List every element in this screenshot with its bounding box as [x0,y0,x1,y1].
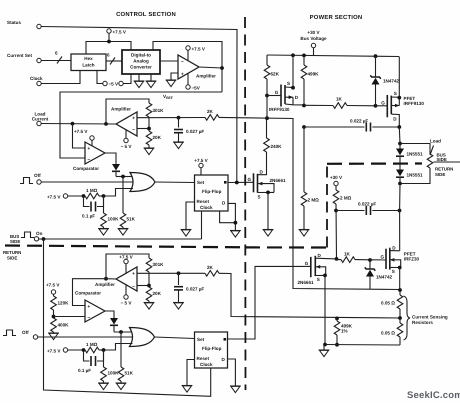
svg-text:+7.5 V: +7.5 V [192,47,206,52]
svg-text:G: G [381,100,385,105]
svg-text:IRFZ30: IRFZ30 [404,257,420,262]
svg-text:100K: 100K [108,371,120,376]
svg-text:Converter: Converter [130,65,152,70]
wire Current Set to Hex Latch with bus slash 6 [41,60,71,62]
svg-text:S: S [287,81,290,86]
wire 62K node down to 2K line [266,96,268,119]
svg-text:Comparator: Comparator [73,166,99,171]
ground below 20K [144,148,155,155]
wire VREF line down to comparator U5 minus input [60,92,222,158]
resistor R 2M (left) [303,127,305,192]
latch U1 Hex Latch [71,54,106,71]
svg-text:2K: 2K [207,265,214,270]
svg-text:S: S [258,195,261,200]
svg-text:100K: 100K [108,217,120,222]
svg-text:301K: 301K [153,262,165,267]
resistor R 51K (lower) [120,332,122,367]
resistor R 1M (lower) [85,347,99,353]
svg-text:6: 6 [55,51,58,56]
wire U6 D output to ground [228,203,235,230]
svg-text:+7.5 V: +7.5 V [113,30,127,35]
svg-text:Set: Set [197,180,205,185]
ground below DAC right [150,74,152,81]
wire G2 bottom input jog [104,344,133,351]
node junction [107,40,111,44]
zener diode CR6 1N4742 (lower) [369,260,371,269]
svg-text:20K: 20K [153,291,162,296]
svg-text:SIDE: SIDE [435,172,445,177]
wire bottom rail [325,344,400,347]
resistor R 0.05 ohm (upper sense) [399,290,401,295]
svg-text:120K: 120K [58,301,70,306]
svg-text:0.1 µF: 0.1 µF [78,368,91,373]
svg-text:499K: 499K [308,72,320,77]
wire U7 minus input junction [137,285,149,287]
wire output column to PFET Q4 [399,184,401,251]
ground at U3 plus input [166,80,177,87]
svg-text:1N5551: 1N5551 [407,173,424,178]
wire U4 plus input line to 2K and power section [137,117,205,119]
svg-text:−: − [87,157,90,163]
svg-text:1 MΩ: 1 MΩ [86,342,98,347]
ground at bottom rail [323,345,325,351]
ground below 400K [48,333,59,340]
svg-text:0.1 µF: 0.1 µF [82,214,95,219]
wire Hex Latch to DAC with bus slash 6 [106,60,122,62]
wire 1K to PFET gate [376,105,388,107]
svg-text:G: G [381,255,385,260]
capacitor C 0.1uF (upper) [84,196,90,207]
wire U3 plus input to ground [171,73,178,80]
svg-text:400K: 400K [58,323,70,328]
svg-text:S: S [317,277,320,282]
svg-text:Clock: Clock [200,362,213,367]
op-amp U3 Amplifier (DAC buffer) [178,55,199,79]
svg-text:Current: Current [32,117,49,122]
svg-text:Comparator: Comparator [75,290,101,295]
op-amp U7 Amplifier (lower, points left) [116,267,137,291]
wire U4 minus input to junction [137,128,149,130]
wire U9 Reset to ground [187,360,195,386]
svg-text:Current Set: Current Set [7,53,32,58]
svg-text:2N6661: 2N6661 [298,280,315,285]
wire divider midpoint to U8 minus input [54,316,86,318]
transistor Q3 PFET IRFF9130 (upper right) [386,95,388,117]
svg-text:+30 V: +30 V [307,30,320,35]
diode CR5 1N5551 [396,170,404,177]
svg-text:IRFF9130: IRFF9130 [269,107,290,112]
wire 2K to current sense midpoint [219,273,400,318]
svg-text:+: + [181,72,184,78]
svg-text:1N4742: 1N4742 [376,275,393,280]
wire dashed bus/return separator (left) [5,246,245,248]
svg-text:1K: 1K [344,252,351,257]
resistor R 20K (lower) [148,286,150,288]
node junction U3 output [220,66,224,70]
resistor R 400K [51,318,57,332]
capacitor C 0.027uF (upper) [178,118,180,128]
resistor R 301K (lower) [146,258,152,272]
svg-text:−: − [132,284,135,290]
svg-text:20K: 20K [153,135,162,140]
svg-text:+7.5 V: +7.5 V [194,158,208,163]
node -5V terminal below U4 [124,138,128,142]
wire Load Current to U5 plus input [73,124,86,148]
svg-text:G: G [248,177,252,182]
svg-text:51K: 51K [127,217,136,222]
resistor R 2K (lower) [205,271,219,277]
diode CR1 [112,164,120,171]
ground below C (lower) [173,303,184,310]
comparator U8 (lower) [85,300,105,322]
svg-text:0.05 Ω: 0.05 Ω [381,301,395,306]
svg-text:Clock: Clock [30,76,43,81]
svg-text:S: S [392,269,395,274]
node +7.5V terminal (top rail) [107,29,111,33]
svg-text:Amplifier: Amplifier [196,74,216,79]
wire dashed bus/return notch [245,246,327,248]
svg-text:+: + [87,146,90,152]
node On input terminal [21,232,34,238]
wire +30V top rail [267,55,399,57]
svg-text:Flip-Flop: Flip-Flop [202,346,222,351]
transistor Q4 PFET IRFZ30 [385,249,387,269]
diode CR4 1N5551 [399,144,401,149]
svg-text:Off: Off [22,330,29,335]
wire +7.5V rail to Hex Latch and DAC tops [108,33,110,41]
svg-text:−: − [87,315,90,321]
capacitor C 0.022uF (upper) [302,125,306,129]
svg-text:0.022 µF: 0.022 µF [358,202,376,207]
svg-text:POWER SECTION: POWER SECTION [310,14,363,21]
resistor R 301K [146,103,152,117]
svg-text:−5V: −5V [192,86,201,91]
resistor R 62K [266,55,268,65]
svg-text:+7.5 V: +7.5 V [74,129,88,134]
svg-text:240K: 240K [271,144,283,149]
svg-text:+30 V: +30 V [330,175,343,180]
wire U6 Clock down to On line [201,211,203,239]
resistor R 240K [266,118,268,138]
resistor R 100K (upper) [103,196,105,213]
wire Hex Latch bottom to -5V [97,71,103,84]
resistor R 120K [51,296,57,310]
svg-text:IRFF9130: IRFF9130 [404,101,425,106]
svg-text:Load: Load [430,139,441,144]
wire U3 output to feedback loop [199,67,222,68]
svg-text:SIDE: SIDE [7,256,17,261]
svg-text:1N5551: 1N5551 [407,152,424,157]
wire diode node to OR gate top input [116,176,132,178]
svg-text:2N6661: 2N6661 [270,178,287,183]
ground below C [173,142,184,149]
ground below 20K (lower) [144,303,155,310]
comparator U5 (upper) [85,142,105,164]
ground below 2M [299,230,310,237]
wire Load Current line to amplifier U4 output [41,123,116,126]
node +7.5V terminal above U3 [186,46,190,50]
svg-text:Analog: Analog [133,59,149,64]
OR gate G1 [130,173,155,192]
wire U7 output to comparator U8 plus input [73,279,107,306]
resistor R 1K (lower) [337,258,342,261]
svg-text:− 5 V: − 5 V [121,144,133,149]
wire DAC output to U3 minus input [160,60,178,62]
OR gate G2 [130,328,155,347]
ground below 51K [118,229,129,236]
wire G2 output to flip-flop U9 Set [155,337,195,339]
svg-text:Hex: Hex [84,56,93,61]
svg-text:SIDE: SIDE [10,239,20,244]
svg-text:SIDE: SIDE [437,157,447,162]
resistor R 2K [205,115,219,121]
svg-text:Status: Status [7,20,21,25]
wire OR output to flip-flop U6 Set [155,181,195,184]
resistor R 499K [303,55,305,65]
wire U9 Q output up to 2N6661 (lower) gate [228,266,311,339]
wire diode node to OR gate G2 top input [114,331,132,333]
op-amp U4 Amplifier (current sense, points left) [116,112,137,136]
svg-text:1 MΩ: 1 MΩ [86,188,98,193]
svg-text:+7.5 V: +7.5 V [47,349,61,354]
svg-text:2 MΩ: 2 MΩ [308,198,320,203]
svg-text:On: On [36,231,43,236]
wire Status line to flip-flop Q [41,27,237,183]
resistor R 0.05 ohm (lower sense) [399,318,401,323]
svg-text:SeekIC.com: SeekIC.com [407,390,460,401]
svg-text:CONTROL SECTION: CONTROL SECTION [116,11,176,18]
svg-text:301K: 301K [153,108,165,113]
wire U9 D output to ground [228,359,236,386]
svg-text:PFET: PFET [404,251,416,256]
zener diode CR3 1N4742 (upper) [375,56,377,77]
svg-text:Latch: Latch [82,63,94,68]
svg-text:Set: Set [197,337,205,342]
wire 1K to Q4 gate [370,259,386,261]
resistor R 1K (upper) [304,104,333,106]
svg-text:Digital-to: Digital-to [131,53,151,58]
svg-text:2K: 2K [207,109,214,114]
svg-text:+7.5 V: +7.5 V [119,255,133,260]
node -5V terminal below U3 [186,85,190,89]
ground below Q2 source [263,230,274,237]
wire -5V to DAC bottom [123,74,131,84]
svg-text:0.05 Ω: 0.05 Ω [381,331,395,336]
wire source rail (sense feedback) [398,288,402,292]
svg-text:0.022 µF: 0.022 µF [350,119,368,124]
svg-text:+7.5 V: +7.5 V [47,195,61,200]
wire Off to OR gate middle input [41,181,133,183]
svg-text:1K: 1K [336,97,343,102]
wire U6 Q output to 2N6661 gate [228,181,254,183]
node -5V terminals [103,81,107,85]
flip-flop U6 (upper) [195,175,229,211]
svg-text:0.027 µF: 0.027 µF [186,287,204,292]
wire OR bottom input jog [104,189,133,197]
flip-flop U9 (lower) [195,332,228,368]
ground below DAC left [138,74,140,81]
wire On line to both flip-flop clocks [39,238,202,240]
svg-text:62K: 62K [271,72,280,77]
svg-text:− 5 V: − 5 V [121,301,133,306]
svg-text:−: − [181,59,184,65]
resistor R 499K 1% [335,317,339,321]
svg-text:Off: Off [34,173,41,178]
capacitor C 0.022uF (lower) [336,210,365,212]
load resistor branch [400,144,430,155]
wire PFET drain to diodes [398,127,401,144]
wire U8 output to diode CR2 [105,311,114,318]
brace current sensing resistors [404,296,411,340]
svg-text:+: + [132,271,135,277]
wire U5 output to diode CR1 [105,153,116,164]
resistor R 2M (right) [333,190,339,204]
svg-text:RETURN: RETURN [3,250,21,255]
wire U6 Reset to ground [186,202,195,230]
svg-text:6: 6 [107,53,110,58]
wire U4 feedback loop via resistor 301K [106,99,149,124]
svg-text:Resistors: Resistors [412,320,433,325]
svg-text:G: G [275,90,279,95]
svg-text:51K: 51K [125,371,134,376]
transistor Q1 IRFF9130 (upper left) [267,95,281,97]
capacitor C 0.027uF (lower) [178,273,180,285]
svg-text:Flip-Flop: Flip-Flop [202,189,222,194]
svg-text:1N4742: 1N4742 [383,79,400,84]
svg-text:RETURN: RETURN [435,166,453,171]
svg-text:2 MΩ: 2 MΩ [340,196,352,201]
svg-text:Reset: Reset [197,356,210,361]
svg-text:Amplifier: Amplifier [111,107,131,112]
svg-text:−5 V: −5 V [109,82,120,87]
svg-text:0.027 µF: 0.027 µF [186,129,204,134]
svg-text:Amplifier: Amplifier [95,282,115,287]
svg-text:Bus Voltage: Bus Voltage [300,36,327,41]
ground below 100K (lower) [98,383,109,390]
capacitor C 0.1uF (lower) [84,350,90,361]
diode CR2 [110,318,118,325]
svg-text:S: S [394,91,397,96]
node Off input terminal (lower) [3,330,16,336]
svg-text:Clock: Clock [200,205,213,210]
resistor R 20K [148,129,150,132]
svg-text:+: + [87,304,90,310]
svg-text:1%: 1% [341,329,348,334]
svg-text:Reset: Reset [197,199,210,204]
svg-text:Current Sensing: Current Sensing [412,315,448,320]
ground below 51K (lower) [116,383,127,390]
wire U7 feedback loop via 301K [104,277,108,281]
svg-text:−: − [132,127,135,133]
wire U7 plus input line to 2K (lower) [137,272,205,274]
wire dashed section separator [244,17,247,390]
wire Off to G2 middle input [38,336,133,338]
resistor R 100K (lower) [103,350,105,367]
wire DAC top feedback loop around amplifier U3 [153,42,222,93]
svg-text:+: + [132,116,135,122]
wire Clock to Hex Latch bottom [41,71,80,84]
resistor R 51K (upper) [122,177,124,214]
node -5V terminal below U7 [124,295,128,299]
node Off input terminal (upper) [20,178,33,184]
svg-text:G: G [305,261,309,266]
DAC U2 Digital-to-Analog Converter [122,50,160,74]
svg-text:+7.5 V: +7.5 V [46,283,60,288]
resistor R 1M (upper) [85,193,99,199]
ground below 100K [98,229,109,236]
